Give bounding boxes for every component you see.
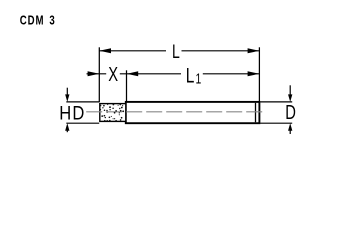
svg-text:D: D	[285, 101, 296, 124]
svg-text:CDM 3: CDM 3	[20, 14, 56, 28]
svg-text:1: 1	[196, 71, 202, 87]
svg-text:L: L	[172, 41, 180, 63]
svg-text:HD: HD	[59, 102, 85, 124]
svg-text:L: L	[186, 63, 195, 87]
svg-text:X: X	[108, 62, 118, 85]
